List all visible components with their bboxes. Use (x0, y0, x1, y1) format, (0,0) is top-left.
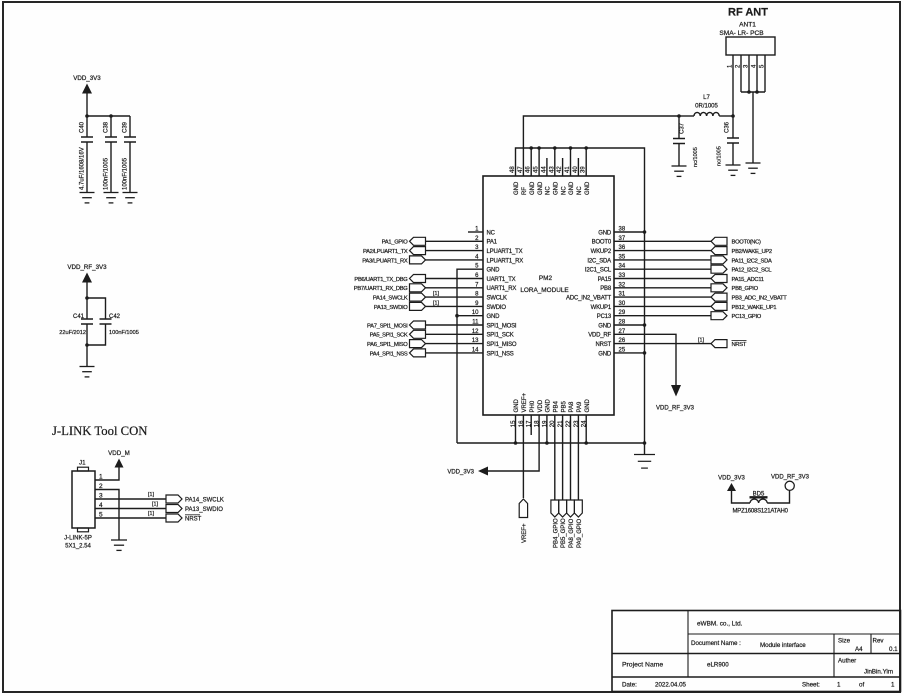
svg-text:C39: C39 (123, 121, 129, 133)
svg-text:C36: C36 (725, 121, 731, 133)
svg-text:eLR900: eLR900 (707, 662, 729, 669)
svg-text:J-LINK-5P: J-LINK-5P (64, 536, 92, 542)
svg-text:[1]: [1] (698, 338, 704, 344)
svg-text:GND: GND (585, 181, 591, 195)
svg-text:VDD_3V3: VDD_3V3 (718, 476, 745, 482)
wire ANT1 pin5 to tie bar (764, 55, 766, 92)
junction pin 41 top bus (569, 146, 573, 150)
svg-text:SPI1_MISO: SPI1_MISO (487, 342, 517, 348)
svg-text:PB8_GPIO: PB8_GPIO (732, 286, 759, 292)
svg-text:PB5_GPIO: PB5_GPIO (561, 518, 567, 548)
svg-text:C37: C37 (680, 122, 686, 134)
wire pin 19 GND to bus (546, 415, 548, 443)
node PA13_SWDIO (J-LINK) (166, 505, 223, 514)
svg-text:Auther: Auther (838, 658, 856, 665)
svg-text:of: of (859, 682, 864, 689)
wire VDD_3V3 to rail (86, 94, 88, 117)
junction pin 28 GND (643, 323, 647, 327)
svg-text:PB2/WAKE_UP2: PB2/WAKE_UP2 (732, 249, 772, 255)
junction pin 43 top bus (553, 146, 557, 150)
svg-text:I2C_SDA: I2C_SDA (587, 258, 611, 264)
power flag VDD_RF_3V3 (left) (67, 264, 107, 283)
connector ANT1 body (719, 22, 775, 56)
node PA14_SWCLK (J-LINK) (166, 495, 224, 504)
junction C40 top (85, 114, 89, 118)
svg-text:PA3/LPUART1_RX: PA3/LPUART1_RX (362, 258, 408, 264)
svg-text:PA5_SPI1_SCK: PA5_SPI1_SCK (370, 333, 408, 339)
svg-text:Project Name: Project Name (622, 662, 663, 669)
title block size (838, 638, 863, 654)
wire VDD_RF_3V3 to C41 (86, 283, 88, 299)
svg-text:VDD_RF_3V3: VDD_RF_3V3 (771, 475, 810, 481)
junction tie bar pin4 (755, 90, 759, 94)
wire pin 44 NC stub (546, 158, 548, 176)
svg-text:GND: GND (546, 399, 552, 413)
svg-text:PA1: PA1 (487, 240, 498, 246)
node VREF+ (519, 499, 528, 543)
node PA8_GPIO (567, 500, 575, 548)
svg-text:Sheet:: Sheet: (802, 682, 820, 689)
wire C42 bottom (87, 333, 106, 345)
svg-text:L7: L7 (703, 95, 710, 101)
wire pin 41 GND to top bus (570, 148, 572, 176)
junction pin 46 top bus (529, 146, 533, 150)
wire pin26 NRST (614, 343, 711, 345)
wire pin 28 GND (614, 324, 645, 326)
wire C38 lead (110, 115, 112, 117)
capacitor C41 (59, 298, 93, 345)
svg-text:PA8_GPIO: PA8_GPIO (569, 518, 575, 548)
junction C41 C42 top (85, 296, 89, 300)
junction C36 RF (731, 114, 735, 118)
svg-text:LPUART1_TX: LPUART1_TX (487, 249, 523, 255)
svg-text:eWBM. co., Ltd.: eWBM. co., Ltd. (697, 621, 743, 628)
wire pin 21 PB5_GPIO (562, 415, 564, 500)
svg-text:GND: GND (530, 181, 536, 195)
wire pin 31 to PB3_ADC_IN2_VBATT (614, 296, 711, 298)
wire PA4_SPI1_NSS to pin 14 (426, 352, 484, 354)
power flag VDD_M (108, 450, 130, 468)
svg-text:100nF/1005: 100nF/1005 (104, 157, 110, 190)
svg-text:PH0: PH0 (530, 400, 536, 412)
wire pin10 GND (457, 315, 483, 317)
svg-text:J1: J1 (79, 460, 86, 467)
wire PA3/LPUART1_RX to pin 4 (426, 259, 484, 261)
node PB4_GPIO (551, 500, 559, 548)
svg-text:NC: NC (561, 186, 567, 195)
wire pin 20 PB4_GPIO (554, 415, 556, 500)
ground under J1 pin2 (111, 540, 127, 550)
wire pin 37 to BOOT0(NC) (614, 240, 711, 242)
svg-text:SPI1_SCK: SPI1_SCK (487, 333, 514, 339)
junction pin 38 GND (643, 230, 647, 234)
svg-text:Rev: Rev (873, 638, 885, 645)
node PB5_GPIO (559, 500, 567, 548)
node PA3/LPUART1_RX (362, 256, 425, 264)
svg-text:GND: GND (514, 181, 520, 195)
svg-text:NRST: NRST (185, 517, 202, 523)
title block author (838, 658, 893, 676)
ground under C39 (123, 193, 138, 203)
wire PA2/LPUART1_TX to pin 3 (426, 250, 484, 252)
svg-text:PA2/LPUART1_TX: PA2/LPUART1_TX (363, 249, 408, 255)
svg-text:WKUP2: WKUP2 (591, 249, 612, 255)
svg-text:PA15_ADC11: PA15_ADC11 (732, 277, 764, 283)
svg-text:5X1_2.54: 5X1_2.54 (65, 544, 91, 550)
svg-text:GND: GND (598, 351, 612, 357)
node PA6_SPI1_MISO (367, 340, 425, 348)
svg-text:nc/1005: nc/1005 (717, 146, 723, 166)
node PA2/LPUART1_TX (363, 247, 426, 255)
wire RF pin47 up (523, 116, 679, 176)
wire pin 34 to PA12_I2C2_SCL (614, 268, 711, 270)
node PB3_ADC_IN2_VBATT (711, 293, 787, 301)
power flag VDD_RF_3V3 (circle) (771, 475, 810, 491)
wire pin 24 GND to bus (585, 415, 587, 443)
wire pin 38 GND (614, 231, 645, 233)
svg-text:SWCLK: SWCLK (487, 296, 508, 302)
wire VDD_3V3 to BD5 (732, 491, 751, 503)
svg-text:GND: GND (569, 181, 575, 195)
ground under C36 (726, 165, 741, 175)
wire J1 pin4 (95, 508, 166, 510)
svg-text:ADC_IN2_VBATT: ADC_IN2_VBATT (566, 296, 612, 302)
junction pin 45 top bus (537, 146, 541, 150)
junction pin 19 bus (545, 441, 549, 445)
svg-text:PA13_SWDIO: PA13_SWDIO (374, 305, 408, 311)
wire pin 39 GND to top bus (585, 148, 587, 176)
wire pin1 NC stub (468, 231, 483, 233)
wire PB6/UART1_TX_DBG to pin 6 (426, 278, 484, 280)
svg-text:PA15: PA15 (598, 277, 612, 283)
svg-text:PB5: PB5 (561, 400, 567, 412)
junction C38 top (109, 114, 113, 118)
wire J1 pin1 to VDD_M (95, 468, 119, 481)
wire right GND to symbol (644, 443, 646, 454)
wire PA5_SPI1_SCK to pin 12 (426, 333, 484, 335)
wire pin 35 to PA11_I2C2_SDA (614, 259, 711, 261)
node PB12_WAKE_UP1 (711, 302, 776, 310)
capacitor C36 (717, 116, 740, 166)
junction pin 24 bus (584, 441, 588, 445)
svg-text:Module interface: Module interface (760, 642, 806, 649)
svg-text:ANT1: ANT1 (739, 22, 756, 29)
svg-text:WKUP1: WKUP1 (591, 305, 612, 311)
svg-text:1: 1 (837, 682, 841, 689)
svg-text:PA8: PA8 (569, 401, 575, 413)
wire J1 pin5 (95, 517, 166, 519)
wire top GND bus (516, 148, 645, 443)
svg-text:NC: NC (487, 230, 496, 236)
title block date (622, 682, 687, 689)
svg-text:[1]: [1] (148, 511, 154, 517)
wire pin 40 NC stub (577, 158, 579, 176)
wire pin 43 GND to top bus (554, 148, 556, 176)
svg-text:VREF+: VREF+ (522, 392, 528, 412)
title block rev (873, 638, 899, 654)
junction pin 15 bus (514, 441, 518, 445)
svg-text:A4: A4 (855, 646, 863, 653)
wire pin 29 to PC13_GPIO (614, 315, 711, 317)
node PB8_GPIO (711, 284, 759, 292)
svg-text:C40: C40 (80, 121, 86, 133)
svg-text:[1]: [1] (433, 300, 439, 306)
svg-text:VREF+: VREF+ (522, 523, 528, 543)
svg-text:GND: GND (585, 399, 591, 413)
svg-text:PA12_I2C2_SCL: PA12_I2C2_SCL (732, 268, 773, 274)
node PA9_GPIO (574, 500, 583, 548)
svg-text:22uF/2012: 22uF/2012 (59, 330, 86, 336)
connector J1 (64, 460, 95, 550)
wire pin17 PH0 stub (530, 415, 532, 435)
node PA13_SWDIO (374, 302, 426, 310)
svg-text:PA6_SPI1_MISO: PA6_SPI1_MISO (367, 342, 408, 348)
wire bottom GND bus (457, 442, 645, 444)
svg-text:BOOT0: BOOT0 (592, 240, 612, 246)
svg-text:VDD: VDD (538, 399, 544, 412)
wire pin 45 GND to top bus (538, 148, 540, 176)
svg-text:Size: Size (838, 638, 851, 645)
junction tie bar pin3 (747, 90, 751, 94)
svg-text:C38: C38 (104, 121, 110, 133)
svg-text:LPUART1_RX: LPUART1_RX (487, 258, 524, 264)
svg-text:VDD_RF_3V3: VDD_RF_3V3 (656, 406, 695, 412)
svg-text:Date:: Date: (622, 682, 637, 689)
svg-text:[1]: [1] (148, 492, 154, 498)
node PA15_ADC11 (711, 275, 764, 283)
wire pin 15 GND to bus (515, 415, 517, 443)
svg-text:NC: NC (546, 186, 552, 195)
svg-text:0.1: 0.1 (889, 646, 898, 653)
ground under C41 (80, 367, 95, 377)
title block document name (691, 640, 806, 649)
svg-text:100nF/1005: 100nF/1005 (123, 157, 129, 190)
wire tie bar to ground (752, 92, 754, 163)
svg-text:NRST: NRST (732, 342, 747, 348)
svg-text:1: 1 (891, 682, 895, 689)
node NRST (module) (711, 340, 747, 348)
wire pin 22 PA8_GPIO (570, 415, 572, 500)
svg-text:VDD_RF: VDD_RF (588, 333, 611, 339)
wire pin18 VDD to VDD_3V3 (488, 415, 539, 471)
wire pin 46 GND to top bus (530, 148, 532, 176)
svg-text:SPI1_NSS: SPI1_NSS (487, 351, 514, 357)
svg-text:GND: GND (554, 181, 560, 195)
junction C41 C42 bottom (85, 343, 89, 347)
svg-text:PA1_GPIO: PA1_GPIO (382, 240, 409, 246)
wire PA1_GPIO to pin 2 (426, 240, 484, 242)
wire C41 to ground (86, 345, 88, 367)
svg-text:PC13_GPIO: PC13_GPIO (732, 314, 762, 320)
node PA5_SPI1_SCK (370, 330, 426, 338)
svg-text:PB4_GPIO: PB4_GPIO (553, 518, 559, 548)
capacitor C42 (100, 310, 139, 336)
svg-text:GND: GND (538, 181, 544, 195)
ground right of module (634, 455, 655, 469)
wire PA13_SWDIO to pin 9 (426, 305, 484, 307)
svg-text:NC: NC (577, 186, 583, 195)
power flag VDD_RF_3V3 (down arrow) (656, 385, 695, 412)
node PB7/UART1_RX_DBG (354, 284, 426, 292)
svg-text:PA14_SWCLK: PA14_SWCLK (373, 296, 408, 302)
ground under ANT1 (746, 163, 761, 173)
svg-text:C42: C42 (109, 314, 121, 320)
ferrite bead BD5 (733, 492, 789, 515)
svg-text:PM2: PM2 (539, 275, 553, 282)
ground under C40 (80, 193, 95, 203)
wire pin 33 to PA15_ADC11 (614, 278, 711, 280)
wire pin 42 NC stub (562, 158, 564, 176)
svg-text:PA13_SWDIO: PA13_SWDIO (185, 507, 223, 513)
svg-text:PC13: PC13 (597, 314, 612, 320)
wire pin 36 to PB2/WAKE_UP2 (614, 250, 711, 252)
svg-text:BOOT0(NC): BOOT0(NC) (732, 240, 762, 246)
junction GND bus right (643, 441, 647, 445)
svg-text:VDD_3V3: VDD_3V3 (447, 470, 474, 476)
svg-text:PB8: PB8 (600, 286, 612, 292)
svg-text:nc/1005: nc/1005 (693, 147, 699, 167)
ground under C37 (672, 166, 687, 176)
svg-text:PB6/UART1_TX_DBG: PB6/UART1_TX_DBG (354, 277, 408, 283)
junction pin10 GND (455, 314, 459, 318)
wire pin27 VDD_RF (614, 334, 676, 385)
node PC13_GPIO (711, 312, 762, 320)
wire J1 pin3 (95, 498, 166, 500)
svg-text:PB12_WAKE_UP1: PB12_WAKE_UP1 (732, 305, 777, 311)
svg-text:PB4: PB4 (554, 400, 560, 412)
svg-text:C41: C41 (73, 314, 85, 320)
svg-text:PB3_ADC_IN2_VBATT: PB3_ADC_IN2_VBATT (732, 296, 788, 302)
power flag VDD_3V3 (module left arrow) (447, 467, 488, 476)
title block project name (622, 662, 729, 669)
title block sheet (802, 682, 895, 689)
svg-text:PA4_SPI1_NSS: PA4_SPI1_NSS (370, 351, 408, 357)
svg-text:Document Name :: Document Name : (691, 640, 741, 647)
capacitor C37 (673, 116, 699, 167)
wire J1 pin2 to ground (95, 490, 119, 541)
wire pin 30 to PB12_WAKE_UP1 (614, 305, 711, 307)
wire PB7/UART1_RX_DBG to pin 7 (426, 287, 484, 289)
svg-text:4.7uF/1608/16V: 4.7uF/1608/16V (80, 147, 86, 190)
ground under C38 (104, 193, 119, 203)
wire pin5 GND down (457, 269, 483, 443)
capacitor C39 (123, 116, 137, 193)
svg-text:PA9_GPIO: PA9_GPIO (577, 518, 583, 548)
svg-text:VDD_RF_3V3: VDD_RF_3V3 (67, 264, 107, 271)
svg-text:PA9: PA9 (577, 401, 583, 413)
wire PA14_SWCLK to pin 8 (426, 296, 484, 298)
wire ANT1 pin4 to tie bar (756, 55, 758, 92)
wire PA6_SPI1_MISO to pin 13 (426, 343, 484, 345)
svg-text:NRST: NRST (595, 342, 611, 348)
svg-text:J-LINK Tool CON: J-LINK Tool CON (52, 424, 147, 438)
svg-text:LORA_MODULE: LORA_MODULE (520, 287, 568, 294)
wire pin 23 PA9_GPIO (577, 415, 579, 500)
capacitor C38 (104, 116, 118, 193)
svg-text:PA7_SPI1_MOSI: PA7_SPI1_MOSI (367, 323, 408, 329)
wire BD5 to VDD_RF_3V3 (767, 491, 789, 504)
node PB6/UART1_TX_DBG (354, 275, 425, 283)
node PA12_I2C2_SCL (711, 265, 772, 273)
svg-text:UART1_TX: UART1_TX (487, 277, 516, 283)
wire decoupling rail (87, 115, 130, 117)
svg-text:GND: GND (598, 230, 612, 236)
node PA14_SWCLK (373, 293, 426, 301)
svg-text:SPI1_MOSI: SPI1_MOSI (487, 323, 517, 329)
svg-text:JinBin.Yim: JinBin.Yim (864, 669, 893, 676)
node PA7_SPI1_MOSI (367, 321, 425, 329)
wire ANT1 pin2 to tie bar (740, 55, 742, 92)
svg-text:GND: GND (487, 314, 501, 320)
wire PA7_SPI1_MOSI to pin 11 (426, 324, 484, 326)
junction pin 39 top bus (584, 146, 588, 150)
node BOOT0(NC) (711, 237, 761, 245)
power flag VDD_3V3 (top-left) (73, 75, 101, 94)
wire L7 to C36 (719, 115, 733, 117)
title block frame (612, 611, 901, 692)
inductor L7 (694, 95, 719, 116)
svg-text:[1]: [1] (152, 502, 158, 508)
svg-text:100nF/1005: 100nF/1005 (109, 330, 139, 336)
svg-text:GND: GND (514, 399, 520, 413)
svg-text:[1]: [1] (433, 291, 439, 297)
junction C37 RF (677, 114, 681, 118)
wire pin 25 GND (614, 352, 645, 354)
wire RF line L7 left (679, 115, 694, 117)
wire ANT1 pin3 to tie bar (748, 55, 750, 92)
wire ANT1 pin1 to RF (732, 55, 734, 116)
node PB2/WAKE_UP2 (711, 247, 772, 255)
svg-text:0R/1005: 0R/1005 (695, 104, 718, 110)
svg-text:PA11_I2C2_SDA: PA11_I2C2_SDA (732, 258, 772, 264)
svg-text:VDD_M: VDD_M (108, 450, 130, 457)
svg-text:UART1_RX: UART1_RX (487, 286, 517, 292)
svg-text:RF: RF (522, 187, 528, 195)
svg-text:GND: GND (598, 323, 612, 329)
svg-text:RF ANT: RF ANT (728, 7, 768, 19)
capacitor C40 (80, 116, 94, 193)
junction pin 25 GND (643, 351, 647, 355)
node PA1_GPIO (382, 237, 426, 245)
svg-text:VDD_3V3: VDD_3V3 (73, 75, 101, 82)
svg-text:PA14_SWCLK: PA14_SWCLK (185, 498, 224, 504)
svg-text:SWDIO: SWDIO (487, 305, 507, 311)
svg-text:BD5: BD5 (753, 492, 765, 498)
svg-text:MPZ1608S121ATAH0: MPZ1608S121ATAH0 (733, 509, 789, 515)
svg-text:2022.04.05: 2022.04.05 (655, 682, 687, 689)
svg-text:SMA- LR- PCB: SMA- LR- PCB (719, 30, 764, 37)
node PA11_I2C2_SDA (711, 256, 772, 264)
power flag VDD_3V3 (bead) (718, 476, 745, 492)
node PA4_SPI1_NSS (370, 349, 426, 357)
wire pin 32 to PB8_GPIO (614, 287, 711, 289)
wire ANT1 ground tie bar (741, 91, 765, 93)
wire pin16 VREF+ (522, 415, 524, 498)
module U PM2 LORA_MODULE body (483, 176, 614, 415)
node NRST (J-LINK) (166, 514, 202, 523)
svg-text:GND: GND (487, 268, 501, 274)
svg-text:PB7/UART1_RX_DBG: PB7/UART1_RX_DBG (354, 286, 409, 292)
svg-text:I2C1_SCL: I2C1_SCL (585, 268, 612, 274)
wire to C42 branch (87, 298, 106, 310)
